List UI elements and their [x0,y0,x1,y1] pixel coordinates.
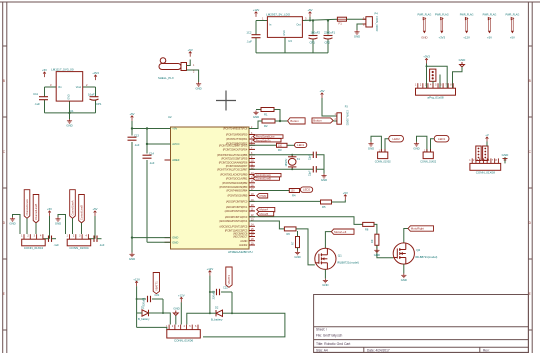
capacitor CP3 [324,36,333,40]
svg-text:Button: Button [290,119,299,123]
global label PWM [257,194,268,198]
resistor R2 [262,119,275,123]
wire LED conn 2 label lead [431,139,435,152]
svg-text:AGND: AGND [240,239,247,243]
capacitor C13 [128,137,137,140]
component JP1 jumper [430,69,436,81]
svg-text:100uF2: 100uF2 [311,30,321,34]
wire P1 cap right [52,238,57,240]
wire +12V to pin3 [180,302,182,324]
regulator U1 LM1117-3V3 [56,72,82,102]
svg-text:GND: GND [129,257,135,261]
svg-text:22pF: 22pF [309,154,312,160]
capacitor C11 [39,97,48,100]
global label ControlLineB [79,195,85,223]
wire R3 row [249,144,277,146]
ground shell [196,82,201,86]
svg-text:MotorB: MotorB [260,212,269,216]
wire U3 in left [256,20,267,22]
svg-text:Sheet: /: Sheet: / [316,328,327,332]
svg-text:LM2937_5V_LDO: LM2937_5V_LDO [266,12,291,16]
svg-text:+3V3: +3V3 [92,71,99,75]
svg-text:Title: Robotic Gnd Cart: Title: Robotic Gnd Cart [316,342,350,346]
wire battery1 bottom rail [137,327,167,330]
svg-text:.1uF: .1uF [54,243,60,247]
resistor R6 gate Q1 [284,227,296,231]
svg-text:+12V: +12V [463,36,470,40]
svg-text:100: 100 [278,144,283,147]
svg-text:GND: GND [354,34,360,38]
wire P1 gnd [13,215,21,235]
svg-text:GND: GND [66,123,72,127]
wire U1 ground rail [45,112,96,114]
svg-text:LM1117_5V3_00: LM1117_5V3_00 [51,68,74,72]
fuse F1 [337,17,346,21]
global label row5 [257,207,275,211]
svg-text:aPrg_01x08: aPrg_01x08 [427,96,444,100]
svg-text:VBATT1: VBATT1 [154,281,158,291]
svg-text:LED1: LED1 [438,137,446,141]
wire motor conn gnd [504,157,506,163]
frame tick left [3,187,7,189]
svg-text:+3V3: +3V3 [438,36,445,40]
global label ControlLineA [70,190,76,219]
svg-text:(PCINT4/MISO)PB4: (PCINT4/MISO)PB4 [226,189,248,193]
wire R5 row [249,200,321,202]
svg-text:.1uF: .1uF [34,102,40,106]
label LED2 [389,135,404,142]
svg-text:+5V: +5V [487,36,492,40]
svg-text:PWR_FLAG: PWR_FLAG [483,14,497,17]
wire xtal bottom [249,168,313,170]
capacitor CP4 [90,97,99,101]
svg-text:GND: GND [253,115,259,119]
svg-text:+3V3: +3V3 [423,55,430,59]
svg-text:CONN_01X02: CONN_01X02 [346,110,349,126]
svg-text:PWR_FLAG: PWR_FLAG [460,14,474,17]
svg-text:B: B [3,79,5,83]
svg-text:GND: GND [195,86,201,90]
svg-text:CONN_01X06: CONN_01X06 [174,338,194,342]
global label VBATT1 [153,273,159,294]
wire motor conn power [486,142,488,147]
svg-text:GND: GND [68,94,71,100]
connector P8 CONN_01X06 [167,330,201,338]
capacitor P2 0.1uF [94,236,97,242]
svg-text:GND: GND [55,221,61,225]
resistor R1 [261,108,274,112]
wire diode1 to pin1 [163,313,170,325]
svg-text:GND: GND [173,307,179,311]
capacitor CP5 220uF [148,296,151,302]
wire R7 gnd [297,248,299,251]
connector P6 CONN_01X08 [470,163,501,170]
svg-text:CONN_01X04: CONN_01X04 [69,246,89,250]
ground R9 [374,249,379,253]
svg-text:MotorLeft: MotorLeft [334,230,346,234]
wire P1 label2 [35,223,37,234]
svg-text:ChannelLineA: ChannelLineA [25,199,29,216]
svg-text:CONN_01X02: CONN_01X02 [375,160,392,163]
wire U1 vin left [45,86,57,88]
wire P1 label1 [26,218,28,234]
wire mcu gnd row1 [132,237,171,239]
wire U1 gnd pin [69,101,71,119]
svg-text:Q1: Q1 [338,253,342,257]
wire LED conn 2 gnd [417,136,427,152]
wire R1 right [274,110,280,122]
svg-text:C11: C11 [33,92,38,96]
svg-text:16MHz: 16MHz [285,158,288,167]
svg-text:F1: F1 [339,21,343,25]
diode D2 [216,310,223,316]
wire header net gnd [453,67,463,88]
wire battery1 vertical [136,286,138,327]
wire U3 gnd pin [284,37,286,53]
wire xtal top [249,154,313,156]
global label row4 [253,177,280,180]
sheet centre crosshair [216,91,236,111]
svg-text:LED1: LED1 [297,143,304,147]
wire gnd drop [131,238,133,253]
resistor R9 pulldown Q2 [375,234,379,245]
svg-text:.1uF: .1uF [149,161,155,165]
svg-text:Rev:: Rev: [483,349,490,353]
wire P2 gnd [58,215,66,235]
svg-text:(ADC4/SDA/PCINT12)PC4: (ADC4/SDA/PCINT12)PC4 [219,219,248,223]
svg-text:GND: GND [9,221,15,225]
wire +5V down to mcu [131,121,133,136]
svg-text:GND: GND [172,240,178,244]
svg-text:Button: Button [313,119,322,123]
svg-text:(PCINT19/OC2B/INT1)PD3: (PCINT19/OC2B/INT1)PD3 [219,143,248,147]
svg-text:AREF: AREF [172,158,180,162]
svg-text:.1uF: .1uF [134,143,140,147]
sheet frame outer left line [2,2,4,353]
wire battery2 cap row [210,291,215,293]
wire Q2 source gnd [403,264,405,273]
svg-text:MotoRight: MotoRight [411,227,424,231]
svg-text:CONN_01X04: CONN_01X04 [24,246,44,250]
capacitor CP2 [309,36,318,40]
wire R5 to power [332,200,346,202]
svg-text:(ADC0/PCINT8)PC0: (ADC0/PCINT8)PC0 [226,200,248,204]
wire P1 cap left [43,238,49,240]
svg-text:D2: D2 [215,306,219,310]
svg-text:+Vs: +Vs [172,127,177,131]
svg-text:(PCINT22/OC0A/AIN0)PD6: (PCINT22/OC0A/AIN0)PD6 [219,160,248,164]
label LED2 [300,187,312,192]
wire shell pin2 to gnd [187,70,199,82]
connector P5 aPrg_01x08 [416,88,456,95]
wire gnd to R1 [256,109,261,111]
capacitor P1 0.1uF [49,236,52,242]
svg-text:R9: R9 [370,239,374,243]
ground conn symbol [173,311,178,316]
svg-text:GND: GND [401,278,407,282]
svg-text:ControlLineB: ControlLineB [256,177,271,181]
svg-text:(ADC3/PCINT11)PC3: (ADC3/PCINT11)PC3 [225,215,248,219]
wire avcc vertical [146,129,148,154]
svg-text:Out: Out [296,23,300,27]
MCU U2 ATMEGA328P-PU body [171,127,250,249]
connector P3 button CONN_01X02 [337,113,342,124]
wire header comp bottom [432,81,434,88]
wire Q1 gate from MCU [249,221,284,229]
wire P2 cap left [89,238,95,240]
wire avcc branch [147,143,171,145]
svg-text:R3: R3 [278,148,282,152]
svg-text:PWR_FLAG: PWR_FLAG [506,14,520,17]
svg-text:PWR_FLAG: PWR_FLAG [435,14,449,17]
svg-text:P4: P4 [375,12,379,16]
wire Q1 source gnd [324,269,326,278]
wire shell pin1 to +5V [187,60,191,66]
diode D1 [142,310,149,316]
svg-text:CONN_01X02: CONN_01X02 [375,16,378,32]
svg-text:E: E [3,292,5,296]
wire U3 left cap [255,21,257,35]
wire Q2 gate from MCU [249,217,363,225]
svg-text:File: GndTrolly.sch: File: GndTrolly.sch [316,334,342,338]
svg-text:Vin: Vin [58,85,62,89]
MCU left pin stubs [165,128,171,130]
svg-text:ATMEGA328P-PU: ATMEGA328P-PU [228,250,253,254]
svg-text:VBATT2: VBATT2 [227,274,231,284]
resistor R5 [321,200,332,204]
svg-text:(PCINT16/RXD)PD0: (PCINT16/RXD)PD0 [226,133,248,137]
transistor Q1 IRLB8721 [315,248,336,269]
connector P2 CONN_01X04 [67,239,91,246]
crystal X1 16MHz [288,155,296,170]
svg-text:C13: C13 [134,134,139,138]
wire P2 label1 [72,218,74,234]
connector CONN_01X02 LED2 [378,152,388,159]
svg-text:CONN_01X08: CONN_01X08 [476,171,496,175]
svg-text:R7: R7 [290,241,294,245]
frame tick right [528,329,532,331]
svg-text:Vout: Vout [76,85,81,89]
wire U3 out [302,19,337,20]
svg-text:LED2: LED2 [392,137,400,141]
wire P2 label2 [81,223,83,234]
svg-text:GND: GND [374,253,380,257]
wire diode2 right [223,312,233,314]
wire Q2 drain to label [404,229,408,243]
svg-text:B_battery: B_battery [138,317,150,321]
sheet frame outer right line [531,2,533,353]
svg-text:C14: C14 [149,152,154,156]
wire U1 vout right [83,86,96,88]
ground header symbol [460,62,465,67]
svg-text:SHELL_PLX: SHELL_PLX [158,76,174,80]
global label Button 2 (points right) [312,118,333,123]
wire R3 to LED1 [287,144,295,146]
regulator U3 LM2937 [267,17,302,38]
resistor R8 gate Q2 [363,222,374,226]
global label row6 [257,212,274,216]
svg-text:GND: GND [421,36,427,40]
capacitor C12 [252,35,261,38]
svg-text:B: B [529,79,531,83]
connector P1 CONN_01X04 [22,239,46,246]
capacitor CP6 220uF [217,289,220,295]
wire header net 1 [426,64,428,89]
wire R2 right [275,120,288,122]
wire diode1 left [137,312,142,314]
svg-text:AVCC: AVCC [172,142,179,146]
capacitor C14 [143,155,152,158]
svg-text:CP1: CP1 [96,102,102,106]
svg-text:(PCINT14/RESET)PC6: (PCINT14/RESET)PC6 [223,127,248,131]
svg-text:(ADC5/SCL/PCINT13)PC5: (ADC5/SCL/PCINT13)PC5 [219,224,247,228]
ground U1 [67,119,72,123]
wire gnd to pin2 [175,316,177,325]
svg-text:22pF: 22pF [309,170,312,176]
svg-text:(ADC2/PCINT10)PC2: (ADC2/PCINT10)PC2 [225,209,248,213]
svg-text:Size: A4: Size: A4 [316,349,328,353]
wire R8 to gate [374,224,393,257]
wire header comp top [439,75,441,89]
ground R7 [295,251,300,255]
wire battery2 to right drop [203,313,285,337]
global label Button [288,118,306,124]
svg-text:PiezoSpeakLine: PiezoSpeakLine [256,135,275,139]
wire U3 cap1 drop [312,21,314,35]
title block outline [314,295,529,353]
global label VBATT2 [226,267,232,287]
svg-text:R2: R2 [264,124,268,128]
label LED1 [434,135,449,142]
wire battery2 cap drop [231,292,233,313]
wire R4 row [249,190,289,192]
sheet frame top line [0,1,540,3]
wire R2 left to pin [249,121,262,129]
frame tick right [528,116,532,118]
svg-text:(ADC7)ADC7: (ADC7)ADC7 [233,235,248,239]
capacitor C16 [313,166,316,172]
svg-text:PiezoSpkrTx: PiezoSpkrTx [256,138,271,142]
svg-text:R4: R4 [292,193,296,197]
svg-text:(PCINT2/SS/OC1B)PB2: (PCINT2/SS/OC1B)PB2 [222,181,248,185]
global label row2 [253,139,281,142]
wire caps gnd [323,169,325,174]
wire diode1 right [149,312,164,314]
svg-text:R8: R8 [365,228,369,232]
wire +5V to button conn pin1 [322,98,337,116]
ground P2 [55,217,60,221]
svg-text:(PCINT20/XCK/T0)PD4: (PCINT20/XCK/T0)PD4 [223,148,248,152]
wire R7 top [297,231,299,237]
wire U3 cap2 drop [327,21,329,35]
resistor R3 [277,143,288,147]
svg-text:.1uF: .1uF [246,40,252,44]
wire Q1 drain to label [325,232,331,249]
wire +Vs branch [132,128,171,130]
wire U1 right cap vertical [95,87,97,97]
wire P2 cap right [97,238,102,240]
svg-text:AGND2: AGND2 [239,243,248,247]
svg-text:220uF1: 220uF1 [142,297,146,306]
svg-text:GND: GND [294,255,300,259]
global label row3 [253,173,281,176]
svg-text:CONN_01X02: CONN_01X02 [420,160,437,163]
svg-text:Date: 4/24/2017: Date: 4/24/2017 [367,349,390,353]
svg-text:(PCINT1/OC1A)PB1: (PCINT1/OC1A)PB1 [226,177,248,181]
label LED1 [295,142,307,147]
wire button label to pin2 [333,120,337,122]
ground Q2 source [401,274,406,278]
svg-text:MotorA: MotorA [260,208,269,212]
ground P1 [10,217,15,221]
ground Q1 source [323,279,328,283]
wire diode2 to pin4 [187,313,210,324]
frame tick left [3,116,7,118]
svg-text:GND: GND [172,236,178,240]
wire R9 gnd [376,245,378,248]
svg-text:ChannelLineB: ChannelLineB [34,204,38,221]
sheet frame inner right line [527,2,529,353]
resistor R4 [289,189,299,193]
connector CONN_01X02 LED1 [423,152,433,159]
svg-text:PWM: PWM [260,194,268,198]
wire R4 to LED2 [299,190,302,192]
global label ChannelLineB [33,195,39,223]
global label MotorLeft [331,229,354,234]
ground connector P4 [354,30,359,34]
wire connector pin2 to gnd [357,24,366,30]
ground LED conn 2 [414,142,419,146]
ground crystal [321,174,326,178]
svg-text:220uF2: 220uF2 [212,290,216,299]
svg-text:.1uF: .1uF [99,243,105,247]
svg-text:GND: GND [283,30,286,36]
svg-text:D1: D1 [141,306,145,310]
wire U1 left cap vertical [44,87,46,97]
wire battery1 cap row [137,298,146,300]
global label MotoRight [408,226,434,231]
svg-text:R5: R5 [322,205,326,209]
wire LED conn 1 gnd [371,136,381,152]
svg-text:IRLB8721(model): IRLB8721(model) [337,260,359,264]
pin block P7 [476,146,481,161]
svg-text:CP1: CP1 [310,41,316,45]
svg-text:U1: U1 [70,109,74,113]
frame tick left [3,258,7,260]
svg-text:IRLB8721(model): IRLB8721(model) [415,255,437,259]
sheet frame inner left line [6,2,8,353]
svg-text:(ADC1/PCINT9)PC1: (ADC1/PCINT9)PC1 [226,205,248,209]
transistor Q2 IRLB8721 [393,243,414,264]
svg-text:B_battery: B_battery [211,317,223,321]
wire header net top [427,66,448,88]
wire mcu gnd row2 [147,241,171,243]
svg-text:10uF1: 10uF1 [88,93,96,97]
svg-text:(PCINT3/OC2A/MOSI)PB3: (PCINT3/OC2A/MOSI)PB3 [219,185,248,189]
svg-text:R1: R1 [264,112,268,116]
svg-text:Q2: Q2 [416,248,420,252]
svg-text:(PCINT0/CLKO/ICP1)PB0: (PCINT0/CLKO/ICP1)PB0 [220,173,248,177]
ground LED conn 1 [368,142,373,146]
svg-text:GND: GND [321,178,327,182]
svg-text:(PCINT6/XTAL1/TOSC1)PB6: (PCINT6/XTAL1/TOSC1)PB6 [217,153,248,157]
svg-text:R6: R6 [287,232,291,236]
global label ChannelLineA [24,190,30,219]
MCU right pin stubs and names [249,128,255,130]
svg-text:U3: U3 [288,39,292,43]
wire U3 ground rail [256,52,328,54]
svg-text:GND: GND [502,153,510,157]
